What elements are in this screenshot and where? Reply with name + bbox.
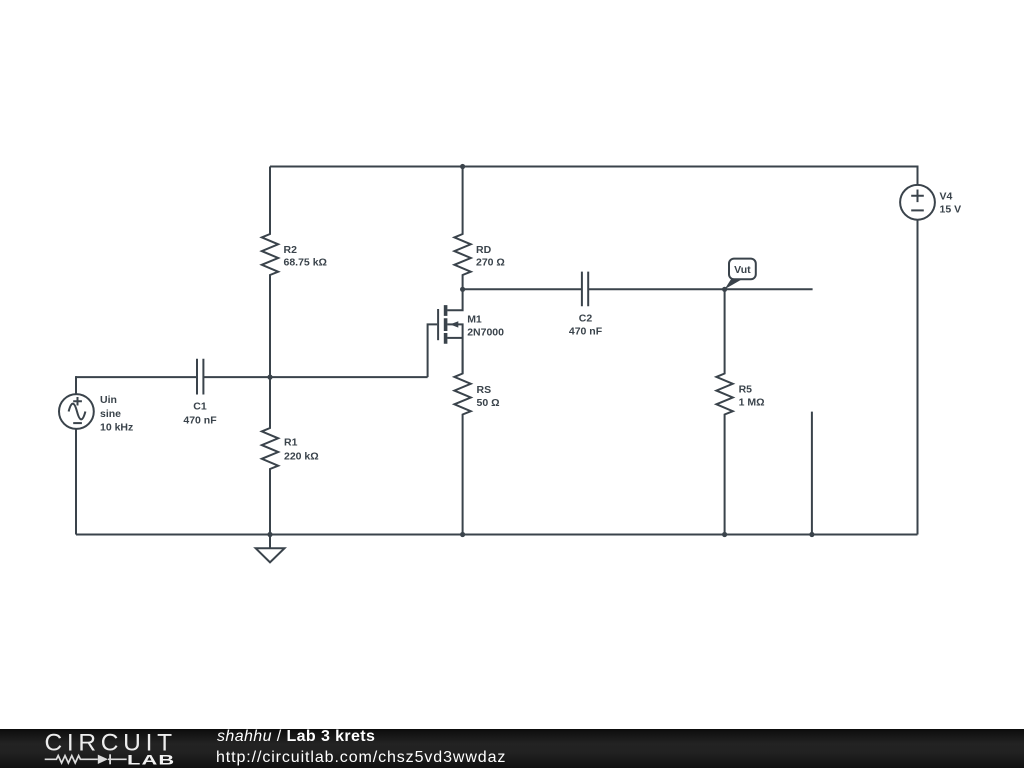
wire V4 top lead — [917, 166, 919, 186]
svg-text:68.75 kΩ: 68.75 kΩ — [284, 257, 327, 269]
node junction output / R5 / Vut — [722, 287, 727, 292]
credit line — [217, 728, 375, 746]
svg-text:R5: R5 — [739, 383, 753, 395]
resistor RS — [454, 350, 470, 535]
voltage source V4 — [900, 185, 935, 220]
wire right rail (V4 to bottom) — [917, 220, 919, 535]
label RS 50 Ohm — [477, 384, 500, 409]
url line — [216, 749, 506, 767]
ground — [256, 535, 285, 563]
label C2 470 nF — [569, 313, 603, 338]
svg-text:M1: M1 — [467, 314, 482, 326]
wire top rail — [270, 166, 918, 168]
node junction bottom / R5 — [722, 532, 727, 537]
label Uin sine 10 kHz — [100, 394, 133, 434]
svg-text:470 nF: 470 nF — [183, 415, 217, 427]
wire C2 right plate to open end — [589, 288, 813, 290]
svg-text:220 kΩ: 220 kΩ — [284, 450, 319, 462]
svg-text:470 nF: 470 nF — [569, 326, 603, 338]
node junction top rail / RD — [460, 164, 465, 169]
transistor M1 — [428, 289, 463, 377]
label Vut — [734, 264, 751, 276]
svg-text:C2: C2 — [579, 313, 593, 325]
label R1 220 kOhm — [284, 436, 319, 462]
resistor RD — [454, 167, 470, 290]
svg-text:2N7000: 2N7000 — [467, 327, 504, 339]
wire C1 right plate to gate corner — [204, 376, 428, 378]
wire bottom rail — [76, 534, 918, 536]
svg-text:sine: sine — [100, 408, 121, 420]
svg-text:V4: V4 — [940, 191, 953, 203]
wire input (Uin to C1 left plate) — [76, 376, 196, 378]
node junction input / R2 R1 — [267, 375, 272, 380]
svg-text:C1: C1 — [193, 401, 207, 413]
footer bar — [0, 729, 1024, 768]
capacitor C2 — [582, 272, 588, 307]
wire Uin bottom lead — [75, 429, 77, 535]
label R2 68.75 kOhm — [284, 244, 327, 269]
label M1 2N7000 — [467, 314, 504, 339]
node junction bottom / ground — [267, 532, 272, 537]
svg-text:LAB: LAB — [127, 753, 175, 768]
wire Uin top lead — [75, 376, 77, 394]
node junction drain / output — [460, 287, 465, 292]
label C1 470 nF — [183, 401, 217, 427]
svg-text:270 Ω: 270 Ω — [476, 257, 505, 269]
label RD 270 Ohm — [476, 244, 505, 269]
svg-text:1 MΩ: 1 MΩ — [739, 397, 765, 409]
label V4 15 V — [940, 191, 962, 216]
svg-text:Uin: Uin — [100, 394, 117, 406]
node Vut flag — [725, 259, 756, 290]
svg-text:RS: RS — [477, 384, 492, 396]
capacitor C1 — [197, 359, 203, 395]
svg-text:Vut: Vut — [734, 264, 751, 276]
svg-text:R1: R1 — [284, 436, 298, 448]
resistor R5 — [716, 289, 732, 534]
label R5 1 MOhm — [739, 383, 765, 408]
node junction bottom / RS — [460, 532, 465, 537]
svg-text:15 V: 15 V — [940, 203, 962, 215]
wire dangling stub — [811, 412, 813, 535]
svg-text:RD: RD — [476, 244, 492, 256]
svg-text:R2: R2 — [284, 244, 298, 256]
resistor R1 — [262, 377, 278, 534]
svg-text:50 Ω: 50 Ω — [477, 397, 500, 409]
svg-text:10 kHz: 10 kHz — [100, 422, 133, 434]
node junction bottom / stub — [809, 532, 814, 537]
voltage source Uin — [59, 394, 94, 429]
wire output (drain node to C2 left plate) — [463, 288, 581, 290]
resistor R2 — [262, 167, 278, 378]
